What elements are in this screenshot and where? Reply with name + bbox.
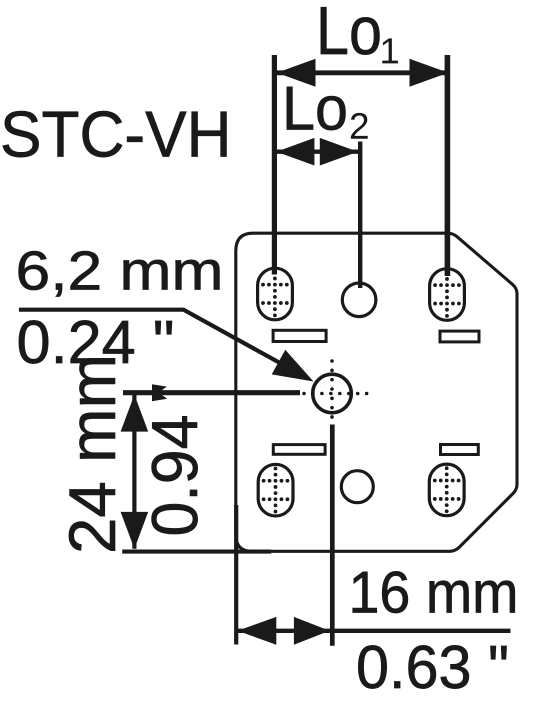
svg-text:0.63 ": 0.63 " xyxy=(356,633,509,701)
svg-text:0.94: 0.94 xyxy=(138,415,211,537)
svg-text:16 mm: 16 mm xyxy=(349,560,519,626)
svg-text:Lo: Lo xyxy=(316,0,382,69)
svg-text:24 mm: 24 mm xyxy=(55,354,129,554)
svg-text:STC-VH: STC-VH xyxy=(0,97,232,170)
svg-text:Lo: Lo xyxy=(282,75,348,144)
svg-text:6,2 mm: 6,2 mm xyxy=(16,240,224,302)
